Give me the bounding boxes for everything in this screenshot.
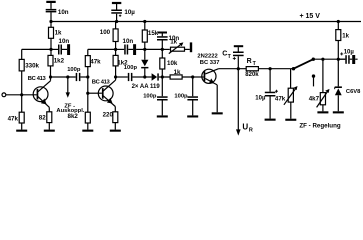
label 10n [123, 38, 134, 45]
capacitor C 10µ (electrolytic decoupling, x116.6) [111, 4, 122, 22]
node Q3 base node (192.7,77) [191, 75, 194, 78]
node base node Q1 (21.7,94.8) [20, 93, 23, 96]
node switch pivot (293.5,68.7) [292, 67, 295, 70]
node B (144.8,49.4) [143, 48, 146, 51]
ground (below 4k7) [317, 111, 328, 113]
wire ZF-Auskoppl arrow [66, 77, 70, 98]
svg-text:4k7: 4k7 [309, 95, 320, 102]
wire +15V bus [51, 21, 361, 23]
node Q1 collector node (50.5,77) [49, 75, 52, 78]
transistor Q3 2N2222/BC337 [202, 69, 219, 113]
wire switch line y59.2 [313, 58, 345, 60]
resistor 1k (stage1 supply, x51) [49, 22, 54, 50]
node supply-rail junction x116.6 [115, 20, 118, 23]
wire switch open contact stub [313, 76, 315, 86]
capacitor C 10µ (series, x345-353) [338, 52, 357, 64]
node stage2 coupling node (87.8,77) [86, 75, 89, 78]
node A (115.6,49.4) [114, 48, 117, 51]
diode zener C6V8 (x338.3) [335, 59, 342, 111]
svg-text:47k: 47k [8, 116, 19, 123]
node Q2 collector node (115.6,77) [114, 75, 117, 78]
node Q2 base node (87.8,93.2) [86, 92, 89, 95]
svg-text:82: 82 [39, 114, 46, 121]
ground (below Q3 emitter) [212, 112, 223, 114]
svg-text:330k: 330k [25, 62, 39, 69]
capacitor C 10n (top-left decoupling, x51) [46, 3, 57, 22]
label 10k [167, 60, 178, 67]
capacitor C_T (shunt to ground from above, x238.3) [233, 47, 244, 69]
wire supply run resume corner x87.8 [88, 48, 116, 50]
svg-text:2N2222: 2N2222 [197, 54, 217, 60]
wire Q2 base lead [88, 92, 102, 94]
wire 4k7 column [322, 59, 324, 92]
label 820k [245, 72, 259, 78]
node detector junction (162.3,77) [161, 75, 164, 78]
label 47k [8, 116, 19, 123]
svg-text:100p: 100p [124, 65, 138, 71]
resistor 10k (x162.3) [160, 49, 165, 77]
svg-text:10µ: 10µ [124, 9, 135, 16]
svg-text:BC 337: BC 337 [200, 60, 220, 66]
svg-text:10n: 10n [123, 38, 134, 45]
svg-text:U: U [242, 122, 248, 131]
diode AA119 no1 (vertical, x144.8) [141, 49, 148, 77]
resistor R_T 820k (horizontal, y68.7) [246, 67, 258, 71]
label 1k [55, 30, 62, 37]
ground (below 100p no2) [187, 115, 198, 117]
label 100p [124, 65, 138, 71]
node supply-rail junction x51 [49, 20, 52, 23]
trimmer 1k (horizontal, y49.4) [162, 42, 190, 53]
label 10µ [344, 49, 355, 55]
wire run node B to 10n shunt [145, 48, 163, 50]
label 1k [170, 38, 177, 45]
label 100p [143, 93, 157, 99]
label 100 [100, 29, 111, 36]
svg-text:+ 15 V: + 15 V [300, 13, 321, 20]
ground (below 47k trimmer) [285, 119, 296, 121]
svg-text:1k: 1k [55, 30, 62, 37]
svg-text:ZF - Regelung: ZF - Regelung [299, 122, 340, 129]
resistor 100 (stage2 collector supply, x115.6) [113, 22, 118, 50]
trimmer 4k7 (x322.9) [317, 89, 330, 111]
svg-text:1k: 1k [342, 34, 349, 40]
node supply-rail junction x144.8 [143, 20, 146, 23]
node 4k7 junction (322.9,59.2) [321, 58, 324, 61]
resistor 8k2 (stage2 lower bias, x87.8) [85, 112, 90, 129]
node AGC node (238.3,68.7) [237, 67, 240, 70]
wire AGC to switch pivot [291, 68, 294, 70]
ground (above C_T) [234, 45, 243, 47]
wire AGC line y68.7 [219, 68, 291, 70]
capacitor C 100p (series coupling stage1-2) [76, 73, 88, 81]
label U_R [242, 122, 253, 133]
wire U_R output arrow [236, 69, 241, 136]
resistor 220 (Q2 emitter, x115.3) [113, 107, 118, 130]
resistor 1k2 (stage1 collector, x51) [48, 49, 53, 80]
svg-text:47k: 47k [90, 59, 101, 66]
label 1k [342, 34, 349, 40]
label BC 413 [28, 76, 47, 82]
node 10µ junction (270.1,68.7) [269, 67, 272, 70]
label 100p [67, 67, 81, 73]
label 1k2 [54, 58, 65, 65]
svg-text:C6V8: C6V8 [346, 89, 361, 95]
capacitor C 10n (shunt to ground, x162.3) [157, 33, 168, 49]
resistor 47k (stage2 upper bias, x87.8) [85, 49, 90, 112]
node stage1 supply node (51,49.4) [49, 48, 52, 51]
ground (below 100p no1) [157, 115, 168, 117]
label 8k2 [68, 113, 79, 120]
label 4k7 [309, 95, 320, 102]
terminal input [2, 93, 6, 97]
svg-text:820k: 820k [245, 72, 259, 78]
svg-text:1k: 1k [174, 69, 181, 76]
label 1k2 [117, 60, 128, 67]
ground (below zener) [333, 111, 344, 113]
svg-text:2× AA 119: 2× AA 119 [132, 84, 161, 90]
label 1k [174, 69, 181, 76]
svg-text:1k2: 1k2 [54, 58, 65, 65]
label R_T [247, 58, 257, 67]
capacitor C 100p (shunt no1, x162.3) [157, 77, 168, 115]
svg-text:10n: 10n [59, 38, 70, 45]
terminal test point bar (x190) [190, 42, 192, 52]
wire input to Q1 base [6, 94, 37, 96]
svg-text:10µ: 10µ [344, 49, 355, 55]
capacitor C 10µ (AGC shunt, x270.1) [265, 69, 278, 119]
svg-text:BC 413: BC 413 [28, 76, 47, 82]
svg-text:R: R [247, 58, 252, 65]
label 47k [90, 59, 101, 66]
wire Q1 collector line y77 [51, 76, 76, 78]
resistor 1k2 (stage2 collector, x115.6) [113, 49, 118, 80]
ground (above 10n shunt, x162.3) [158, 32, 167, 34]
svg-text:15k: 15k [148, 30, 159, 37]
label ZF-Auskoppl. [56, 103, 84, 114]
node supply-rail junction x338.3 [337, 20, 340, 23]
label 2N2222 BC 337 [197, 54, 219, 67]
trimmer 47k (x290.8) [284, 69, 298, 119]
ground (below 47k) [16, 130, 27, 132]
ground (above C 10n top-left) [46, 1, 55, 3]
capacitor C 10n (series detector coupling, x124-136) [116, 44, 145, 55]
node run junction (162.3,49.4) [161, 48, 164, 51]
node detector line (144.8,77) [143, 75, 146, 78]
label 2x AA 119 [132, 84, 161, 90]
svg-text:100p: 100p [174, 93, 188, 99]
svg-text:C: C [222, 51, 227, 58]
svg-text:220: 220 [103, 111, 114, 118]
label BC 413 [92, 79, 111, 85]
svg-text:10n: 10n [58, 9, 69, 16]
svg-text:BC 413: BC 413 [92, 79, 111, 85]
label C_T [222, 51, 231, 61]
ground (below 10µ AGC) [265, 119, 276, 121]
label 15k [148, 30, 159, 37]
svg-text:R: R [249, 127, 253, 133]
node switch open contact (313.5,76.1) [312, 74, 315, 77]
resistor 82 (Q1 emitter, x49.3) [47, 107, 52, 129]
label C6V8 [346, 89, 361, 95]
capacitor C 10n (series, stage1, x58-70) [51, 44, 70, 55]
resistor 47k (stage1 lower bias, x21.7) [19, 112, 24, 130]
label 10n [58, 9, 69, 16]
svg-text:10µ: 10µ [255, 96, 266, 102]
ground (above C 10µ, x116.6) [112, 2, 121, 4]
svg-text:1k: 1k [170, 38, 177, 45]
svg-text:10k: 10k [167, 60, 178, 67]
switch blade [294, 59, 314, 68]
resistor 15k (x144.8) [142, 22, 147, 50]
transistor Q2 BC413 [98, 80, 115, 106]
svg-text:100p: 100p [143, 93, 157, 99]
node ZF tap (67.8,77) [66, 75, 69, 78]
capacitor C 100p (shunt no2, x192.7) [187, 77, 198, 115]
label 10n [169, 35, 180, 42]
wire Q3 base lead [193, 76, 204, 78]
resistor 330k (x21.7) [19, 49, 24, 112]
transistor Q1 BC413 [33, 81, 50, 108]
label 10µ [124, 9, 135, 16]
label 47k [275, 96, 286, 103]
node zener junction (338.3,59.2) [337, 58, 340, 61]
label ZF-Regelung [299, 122, 340, 129]
label 82 [39, 114, 46, 121]
resistor 1k (zener feed, x338.3) [336, 22, 341, 60]
diode AA119 no2 (horizontal, y77) [145, 73, 163, 80]
label +15 V [300, 13, 321, 20]
svg-text:100p: 100p [67, 67, 81, 73]
ground (below 220) [110, 130, 121, 132]
svg-text:8k2: 8k2 [68, 113, 79, 120]
capacitor C 100p (series, detector line x128-132) [116, 73, 145, 81]
label 10n [59, 38, 70, 45]
label 100p [174, 93, 188, 99]
label 330k [25, 62, 39, 69]
label 220 [103, 111, 114, 118]
resistor 1k (detector line, horizontal) [162, 75, 192, 79]
label 10µ [255, 96, 266, 102]
svg-text:100: 100 [100, 29, 111, 36]
wire supply run to 330k [22, 48, 51, 50]
svg-text:47k: 47k [275, 96, 286, 103]
node switch top contact (313.3,59.2) [312, 58, 315, 61]
ground (below 82) [44, 130, 55, 132]
ground (below 8k2) [82, 130, 93, 132]
